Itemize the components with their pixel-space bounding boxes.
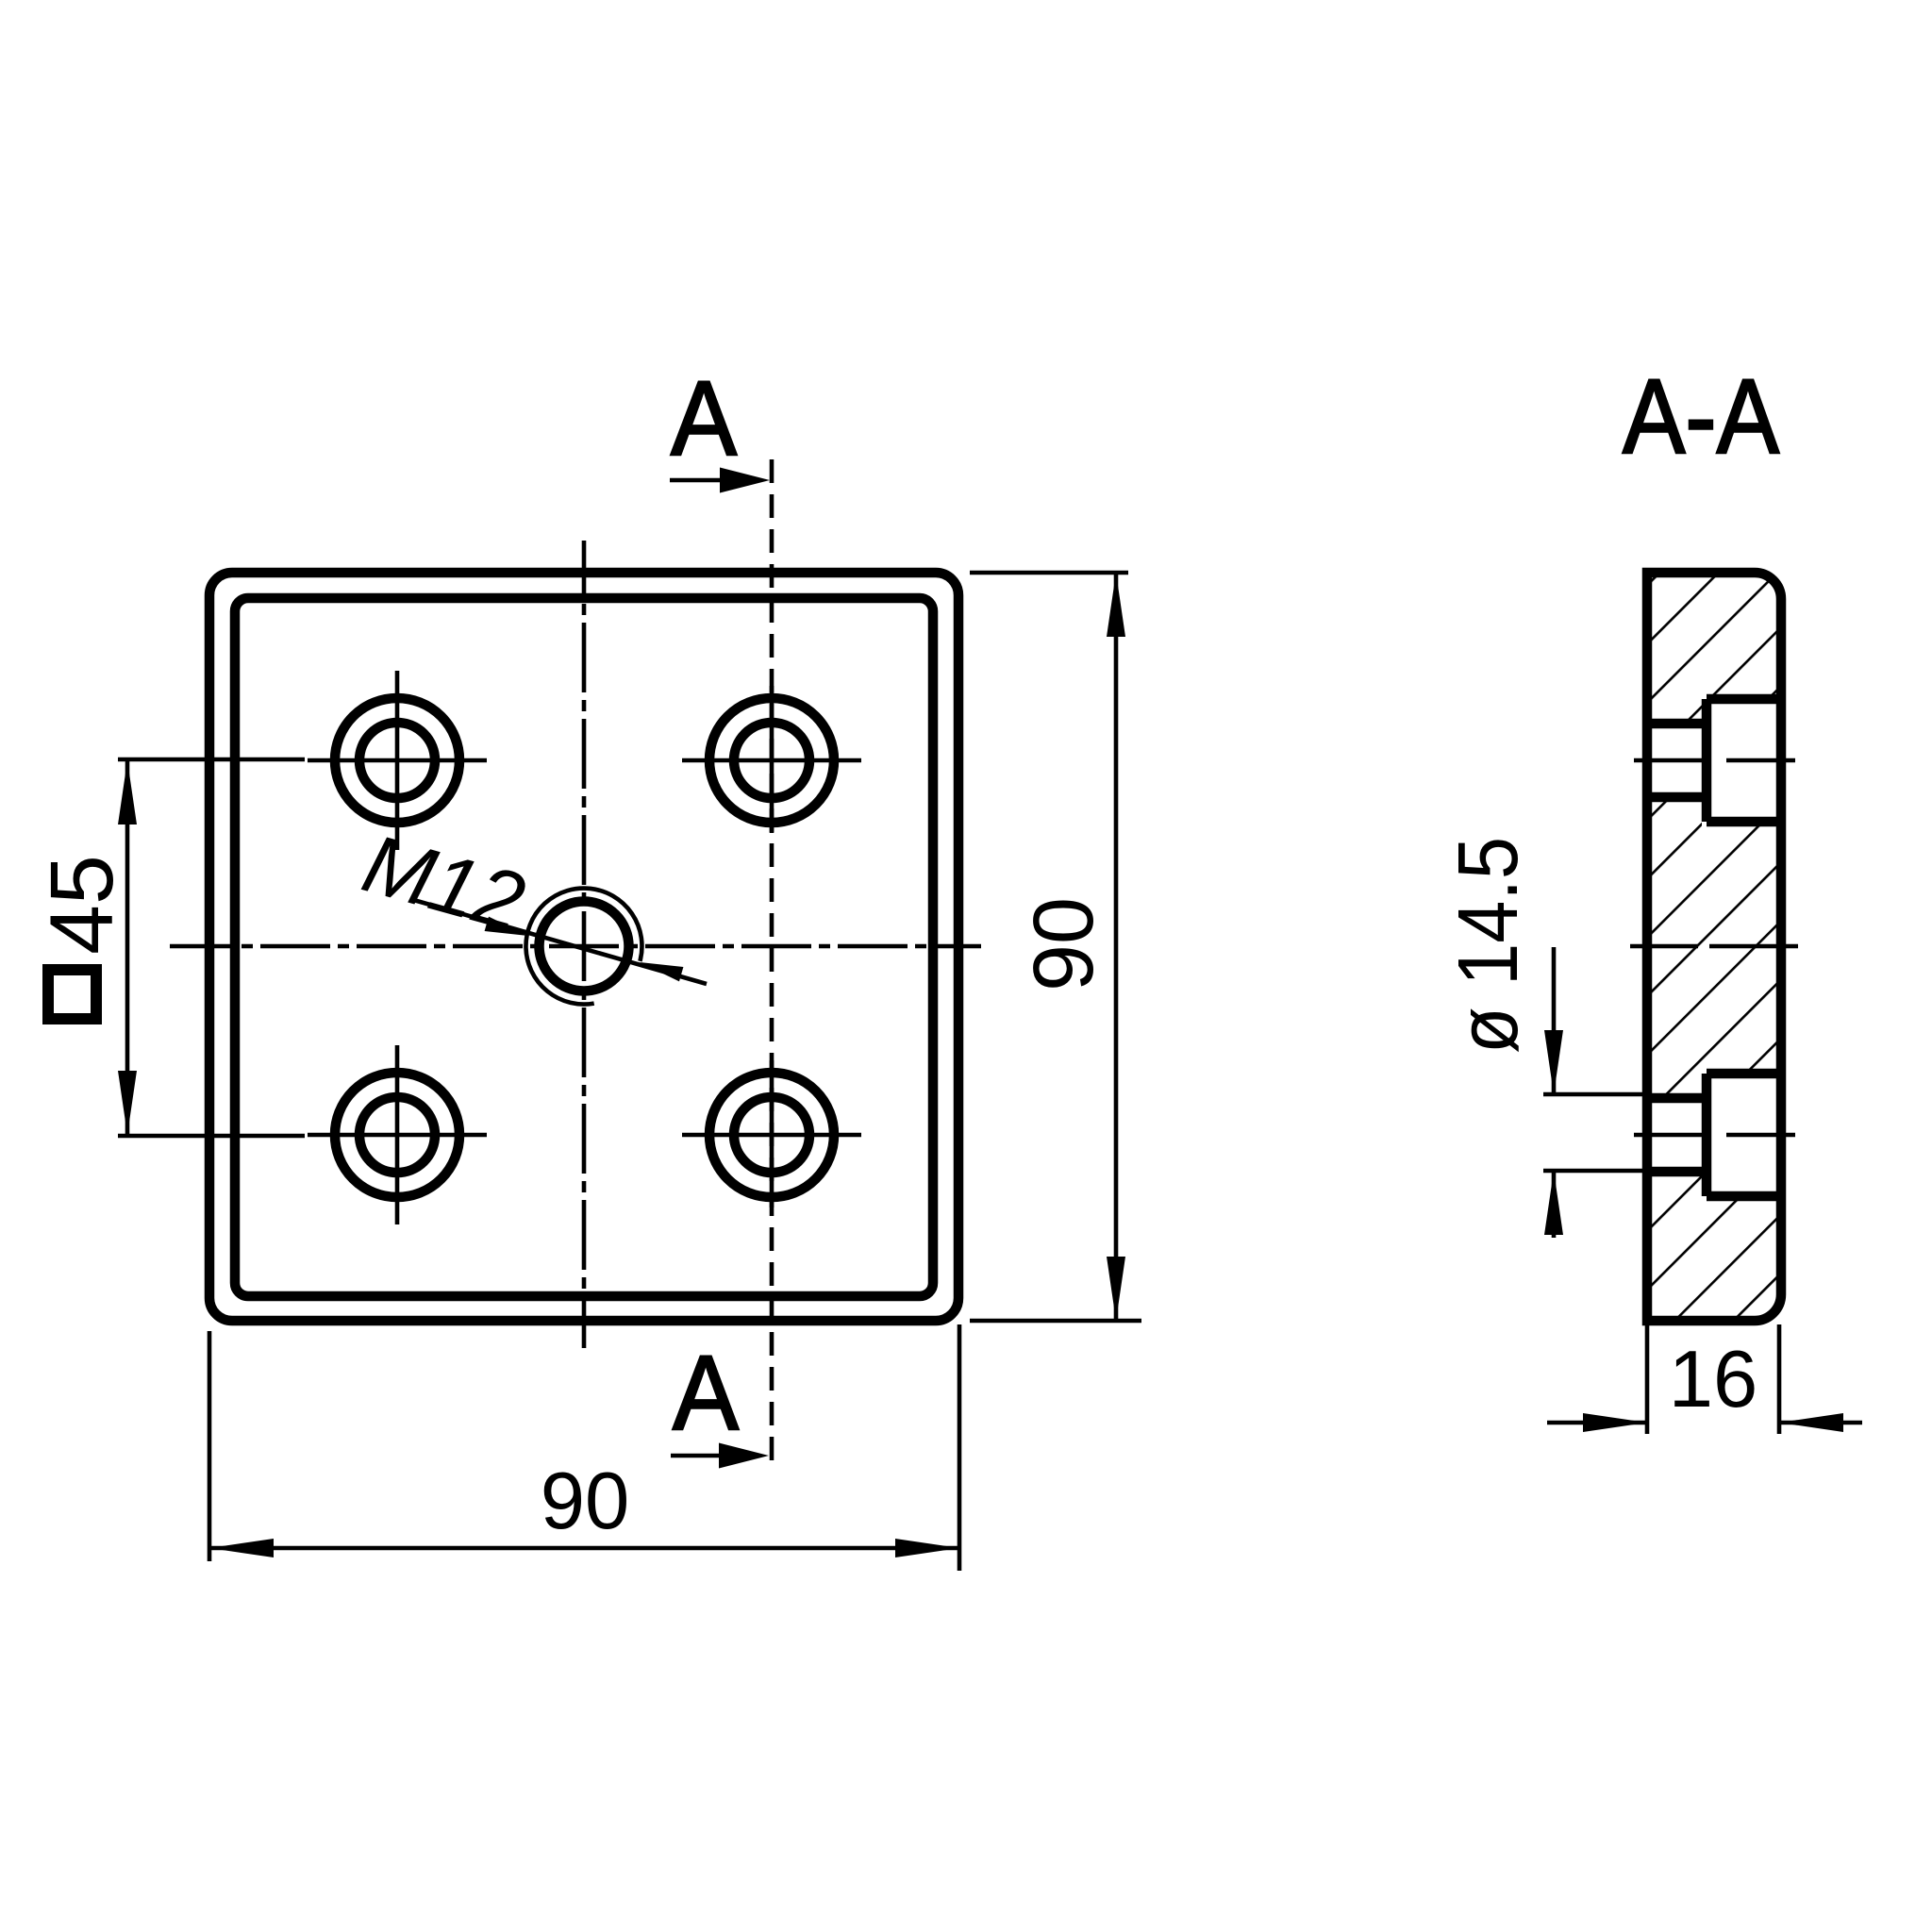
dimension 45: lower extension line <box>118 1134 305 1139</box>
hole bottom-left: through-hole circle <box>359 1097 435 1173</box>
svg-text:ø 14.5: ø 14.5 <box>1441 837 1536 1054</box>
hole top-left: through-hole circle <box>359 723 435 798</box>
hole bottom-right: vertical centerline overlay on cutting line <box>770 1060 774 1207</box>
section bottom hole: through-slot upper line <box>1647 1093 1711 1104</box>
dimension 45: dimension line <box>125 760 130 1135</box>
section top hole: counterbore lower face <box>1707 817 1781 827</box>
hole bottom-right: through-hole circle <box>734 1097 809 1173</box>
section body fill <box>1647 573 1781 1321</box>
section bottom hole void <box>1641 1069 1787 1201</box>
dimension 16: right extension line <box>1777 1324 1782 1434</box>
hole bottom-left: vertical centerline <box>395 1045 400 1224</box>
section top hole: counterbore upper face <box>1707 694 1781 705</box>
label M12 leader arrow lower <box>640 962 683 981</box>
hole bottom-left: horizontal centerline <box>308 1133 487 1138</box>
dimension 16: left extension line <box>1645 1324 1650 1434</box>
dimension dia14.5: upper arrow <box>1544 1030 1563 1094</box>
hole top-right: counterbore circle <box>709 698 834 823</box>
front view: plate inner face outline <box>235 598 933 1296</box>
section body outline <box>1647 573 1781 1321</box>
dimension 16: right dimension line <box>1779 1421 1862 1425</box>
label M12 leader arrow upper <box>485 917 528 936</box>
dimension dia14.5: upper extension line <box>1543 1092 1642 1097</box>
dimension 90 vertical: top extension line <box>970 571 1128 575</box>
svg-text:A: A <box>673 1334 739 1452</box>
svg-text:16: 16 <box>1669 1335 1758 1424</box>
dimension dia14.5: lower arrow <box>1544 1171 1563 1235</box>
svg-text:90: 90 <box>1017 897 1111 991</box>
section bottom hole: counterbore upper face <box>1707 1069 1781 1079</box>
dimension dia14.5: upper dimension line <box>1552 947 1557 1094</box>
dimension dia14.5: lower dimension line <box>1552 1171 1557 1238</box>
section top hole: through-slot lower line <box>1647 792 1711 803</box>
section bottom hole: counterbore lower face <box>1707 1191 1781 1202</box>
section bottom hole: counterbore bottom face <box>1702 1074 1712 1196</box>
dimension 90 vertical: upper arrow <box>1107 573 1125 637</box>
section label A bottom arrowhead <box>719 1443 769 1469</box>
dimension 45: upper arrow <box>118 760 137 824</box>
hole bottom-right: horizontal centerline <box>682 1133 861 1138</box>
dimension 45: square symbol <box>48 970 96 1019</box>
label M12 leader line <box>410 899 707 984</box>
dimension 90 horizontal: left extension line <box>208 1331 212 1561</box>
hole top-left: horizontal centerline <box>308 758 487 763</box>
hole bottom-right: counterbore circle <box>709 1073 834 1197</box>
dimension dia14.5: lower extension line <box>1543 1169 1642 1174</box>
dimension 90 vertical: lower arrow <box>1107 1257 1125 1321</box>
section top hole void <box>1641 694 1787 826</box>
section label A top arrow line <box>670 478 726 483</box>
section top hole: centerline <box>1634 758 1795 763</box>
section mid-height centerline <box>1630 944 1798 949</box>
hole top-left: counterbore circle <box>335 698 459 823</box>
svg-text:A-A: A-A <box>1623 358 1779 475</box>
dimension 16: left arrow <box>1583 1413 1647 1432</box>
svg-text:A: A <box>671 359 737 477</box>
section bottom hole: centerline <box>1634 1133 1795 1138</box>
dimension 16: right arrow <box>1779 1413 1843 1432</box>
section hatching <box>1647 573 1781 1321</box>
dimension 90 vertical: dimension line <box>1114 573 1119 1321</box>
section label A top arrowhead <box>720 468 770 493</box>
hole center M12: tap drill circle <box>540 902 629 991</box>
hole top-left: vertical centerline <box>395 671 400 850</box>
section bottom hole: through-slot lower line <box>1647 1167 1711 1177</box>
centerline: plate vertical axis <box>582 541 587 1348</box>
hole bottom-left: counterbore circle <box>335 1073 459 1197</box>
hole top-right: horizontal centerline <box>682 758 861 763</box>
section label A bottom arrow line <box>671 1454 726 1458</box>
section top hole: counterbore bottom face <box>1702 699 1712 822</box>
dimension 90 horizontal: dimension line <box>209 1546 959 1551</box>
hole center M12: thread crest arc <box>525 889 641 1005</box>
dimension 90 horizontal: right arrow <box>895 1539 959 1557</box>
hole top-right: vertical centerline overlay on cutting line <box>770 686 774 833</box>
section top hole: through-slot upper line <box>1647 719 1711 729</box>
dimension 45: upper extension line <box>118 758 305 762</box>
svg-text:90: 90 <box>541 1457 630 1546</box>
centerline: plate horizontal axis <box>170 944 981 949</box>
dimension 45: lower arrow <box>118 1071 137 1135</box>
svg-text:45: 45 <box>32 855 132 955</box>
section cutting plane line A-A <box>770 459 774 1470</box>
dimension 16: left dimension line <box>1547 1421 1647 1425</box>
dimension 90 vertical: bottom extension line <box>970 1319 1141 1324</box>
dimension 90 horizontal: left arrow <box>209 1539 274 1557</box>
front view: plate outer outline <box>209 573 958 1321</box>
hole top-right: through-hole circle <box>734 723 809 798</box>
dimension 90 horizontal: right extension line <box>958 1324 962 1571</box>
